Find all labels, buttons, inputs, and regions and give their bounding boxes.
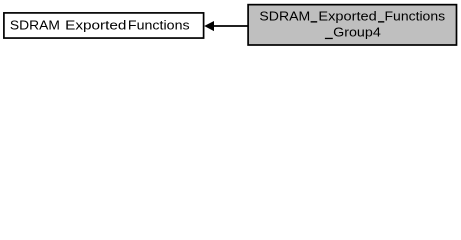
underscore 1	[311, 21, 318, 22]
edge arrowhead	[204, 21, 214, 31]
node box: SDRAM_Exported_Functions_Group4 (current, grey)	[248, 5, 456, 45]
edge wire	[214, 25, 248, 27]
underscore 2	[378, 21, 384, 22]
svg-text:Functions: Functions	[128, 18, 190, 32]
svg-text:Exported: Exported	[65, 18, 126, 33]
dependency graph: SDRAM_Exported_Functions_Group4 -> SDRAM Exported Functions	[0, 0, 461, 51]
svg-text:Group4: Group4	[333, 25, 381, 39]
svg-text:SDRAM: SDRAM	[259, 9, 310, 23]
node label line 2 underscore	[325, 38, 333, 39]
svg-text:Functions: Functions	[385, 9, 446, 23]
node box: SDRAM Exported Functions	[4, 13, 204, 38]
svg-text:Exported: Exported	[318, 9, 376, 23]
svg-text:SDRAM: SDRAM	[10, 18, 60, 32]
background	[0, 0, 461, 51]
